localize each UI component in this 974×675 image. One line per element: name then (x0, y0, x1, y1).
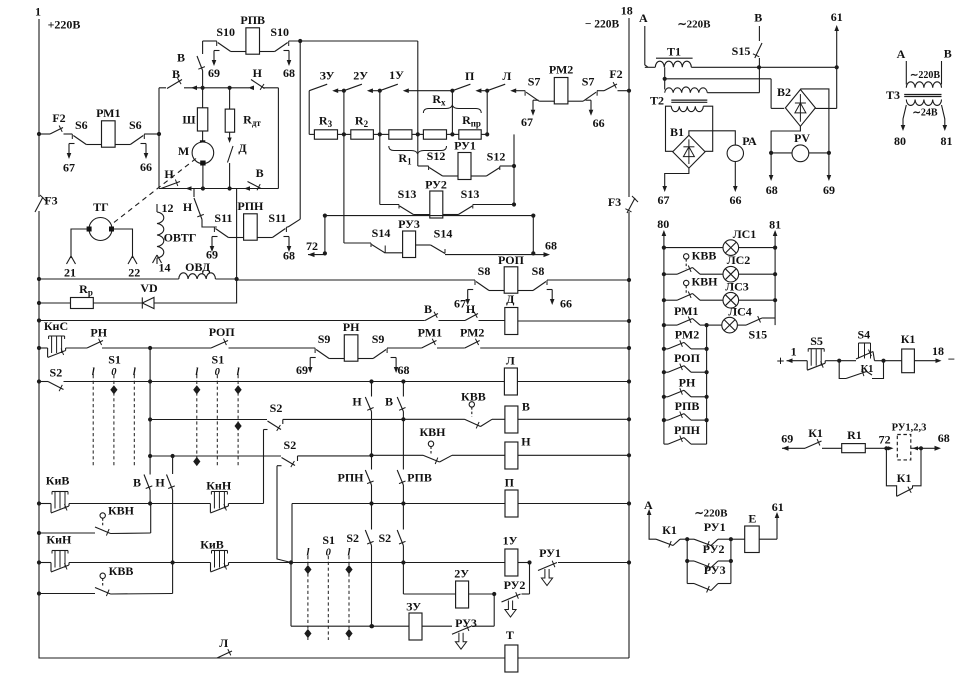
svg-text:Л: Л (502, 69, 511, 83)
svg-text:В: В (256, 166, 264, 180)
svg-text:PV: PV (794, 131, 810, 145)
svg-text:S5: S5 (810, 334, 823, 348)
svg-text:∼220В: ∼220В (910, 70, 940, 81)
svg-text:66: 66 (730, 193, 742, 207)
svg-text:S8: S8 (478, 264, 491, 278)
svg-text:66: 66 (140, 160, 152, 174)
svg-text:18: 18 (621, 3, 633, 17)
svg-text:РМ2: РМ2 (675, 328, 699, 342)
svg-text:КиВ: КиВ (46, 473, 70, 487)
svg-text:РУ1,2,3: РУ1,2,3 (892, 422, 927, 433)
svg-text:S4: S4 (857, 327, 870, 341)
svg-text:РУ1: РУ1 (704, 520, 726, 534)
svg-text:Л: Л (506, 353, 515, 367)
svg-text:67: 67 (658, 193, 670, 207)
svg-text:К1: К1 (901, 332, 916, 346)
svg-text:РН: РН (679, 376, 696, 390)
svg-text:Н: Н (183, 200, 193, 214)
svg-text:S15: S15 (748, 327, 767, 341)
svg-text:12: 12 (162, 201, 174, 215)
svg-text:КВВ: КВВ (692, 248, 717, 262)
svg-text:В2: В2 (777, 85, 791, 99)
svg-text:72: 72 (879, 432, 891, 446)
svg-text:ОВТГ: ОВТГ (164, 231, 197, 245)
svg-text:66: 66 (593, 116, 605, 130)
svg-text:КнС: КнС (44, 319, 68, 333)
svg-text:Л: Л (219, 636, 228, 650)
svg-text:S2: S2 (346, 531, 359, 545)
svg-text:РМ1: РМ1 (674, 304, 698, 318)
svg-text:+220В: +220В (48, 17, 81, 31)
svg-text:−: − (948, 352, 955, 367)
svg-text:В: В (177, 50, 185, 64)
svg-text:РПВ: РПВ (407, 470, 432, 484)
svg-text:РПН: РПН (338, 470, 365, 484)
svg-text:В: В (522, 399, 530, 413)
svg-text:Т2: Т2 (650, 93, 664, 107)
svg-text:Н: Н (521, 434, 531, 448)
svg-text:l: l (237, 367, 240, 378)
svg-text:66: 66 (560, 296, 572, 310)
svg-text:R1: R1 (847, 428, 862, 442)
svg-text:S9: S9 (372, 332, 385, 346)
svg-text:ОВД: ОВД (185, 260, 211, 274)
svg-text:Т3: Т3 (886, 88, 900, 102)
svg-text:ЗУ: ЗУ (406, 599, 421, 613)
svg-text:69: 69 (823, 183, 835, 197)
svg-text:69: 69 (208, 66, 220, 80)
svg-text:S13: S13 (461, 187, 480, 201)
svg-text:∼220В: ∼220В (694, 508, 728, 520)
svg-text:S2: S2 (50, 365, 63, 379)
svg-text:РА: РА (742, 134, 757, 148)
svg-text:РПВ: РПВ (675, 399, 700, 413)
svg-text:РУ2: РУ2 (504, 578, 526, 592)
svg-text:2У: 2У (454, 566, 469, 580)
svg-text:Ш: Ш (182, 113, 195, 127)
svg-text:F3: F3 (608, 195, 621, 209)
svg-text:69: 69 (781, 431, 793, 445)
svg-text:F3: F3 (44, 193, 57, 207)
svg-text:+: + (777, 355, 785, 370)
svg-text:68: 68 (545, 238, 557, 252)
svg-text:0: 0 (215, 367, 221, 378)
svg-text:72: 72 (306, 239, 318, 253)
svg-text:КиН: КиН (46, 532, 72, 546)
svg-text:S1: S1 (108, 352, 121, 366)
svg-text:КнН: КнН (206, 478, 232, 492)
svg-text:К1: К1 (897, 471, 912, 485)
svg-text:К1: К1 (808, 426, 823, 440)
svg-text:80: 80 (657, 217, 669, 231)
svg-text:l: l (306, 547, 309, 558)
svg-text:ЛС2: ЛС2 (727, 253, 751, 267)
svg-text:22: 22 (128, 265, 140, 279)
svg-text:80: 80 (894, 134, 906, 148)
svg-text:l: l (133, 367, 136, 378)
svg-text:69: 69 (296, 363, 308, 377)
svg-text:S10: S10 (216, 25, 235, 39)
svg-text:S2: S2 (270, 401, 283, 415)
svg-text:В: В (385, 394, 393, 408)
svg-text:S13: S13 (398, 187, 417, 201)
svg-text:К1: К1 (662, 523, 677, 537)
svg-text:РУ3: РУ3 (704, 563, 726, 577)
svg-text:∼24В: ∼24В (912, 108, 937, 119)
svg-text:В: В (172, 67, 180, 81)
svg-text:КВВ: КВВ (109, 564, 134, 578)
svg-text:ЛС1: ЛС1 (733, 227, 757, 241)
svg-text:67: 67 (521, 115, 533, 129)
svg-text:А: А (897, 47, 906, 61)
svg-text:68: 68 (766, 183, 778, 197)
svg-text:В: В (944, 46, 952, 60)
svg-text:l: l (195, 367, 198, 378)
svg-text:Н: Н (253, 66, 263, 80)
svg-text:Д: Д (238, 141, 247, 155)
svg-text:l: l (92, 367, 95, 378)
svg-text:К1: К1 (861, 364, 874, 375)
svg-text:1У: 1У (389, 68, 404, 82)
svg-text:Т: Т (506, 628, 514, 642)
svg-text:Т1: Т1 (667, 44, 681, 58)
svg-text:S9: S9 (318, 332, 331, 346)
svg-text:В: В (424, 302, 432, 316)
svg-text:68: 68 (283, 248, 295, 262)
svg-text:S7: S7 (528, 75, 541, 89)
svg-text:ЗУ: ЗУ (320, 69, 335, 83)
svg-text:РОП: РОП (674, 351, 701, 365)
svg-text:S2: S2 (378, 531, 391, 545)
svg-text:РУ2: РУ2 (425, 177, 447, 191)
svg-text:61: 61 (772, 500, 784, 514)
svg-text:S12: S12 (487, 149, 506, 163)
svg-text:VD: VD (140, 281, 158, 295)
svg-text:А: А (644, 498, 653, 512)
svg-text:ЛС3: ЛС3 (725, 279, 749, 293)
svg-text:F2: F2 (609, 67, 622, 81)
svg-text:РПВ: РПВ (240, 13, 265, 27)
svg-text:S10: S10 (270, 25, 289, 39)
svg-text:ЛС4: ЛС4 (728, 304, 752, 318)
svg-text:0: 0 (326, 547, 332, 558)
svg-text:S14: S14 (372, 226, 391, 240)
svg-text:КиВ: КиВ (200, 537, 224, 551)
svg-text:РУ3: РУ3 (398, 217, 420, 231)
svg-text:68: 68 (283, 66, 295, 80)
svg-text:67: 67 (454, 296, 466, 310)
svg-text:В: В (754, 10, 762, 24)
svg-text:2У: 2У (353, 69, 368, 83)
svg-text:РМ1: РМ1 (96, 106, 120, 120)
svg-text:81: 81 (769, 217, 781, 231)
svg-text:Е: Е (748, 511, 756, 525)
svg-text:Н: Н (164, 167, 174, 181)
svg-text:РУ2: РУ2 (703, 542, 725, 556)
svg-text:1: 1 (35, 4, 41, 18)
svg-text:П: П (465, 69, 475, 83)
svg-text:68: 68 (398, 363, 410, 377)
svg-text:18: 18 (932, 344, 944, 358)
svg-text:Н: Н (155, 475, 165, 489)
svg-text:ТГ: ТГ (93, 200, 109, 214)
svg-text:В1: В1 (670, 125, 684, 139)
svg-text:S6: S6 (75, 118, 88, 132)
svg-text:0: 0 (111, 367, 117, 378)
svg-text:КВВ: КВВ (461, 389, 486, 403)
svg-text:РУ1: РУ1 (454, 138, 476, 152)
svg-text:S1: S1 (322, 533, 335, 547)
svg-text:S14: S14 (434, 226, 453, 240)
svg-text:РМ1: РМ1 (418, 325, 442, 339)
svg-text:РН: РН (90, 325, 107, 339)
svg-text:П: П (505, 475, 515, 489)
svg-text:РМ2: РМ2 (549, 63, 573, 77)
svg-text:21: 21 (64, 265, 76, 279)
svg-text:РМ2: РМ2 (460, 325, 484, 339)
svg-text:l: l (348, 547, 351, 558)
svg-text:F2: F2 (52, 111, 65, 125)
svg-text:1У: 1У (503, 533, 518, 547)
svg-text:Д: Д (506, 292, 515, 306)
svg-text:КВН: КВН (108, 503, 135, 517)
svg-text:РПН: РПН (674, 423, 701, 437)
svg-text:S2: S2 (284, 438, 297, 452)
svg-text:61: 61 (831, 10, 843, 24)
svg-text:Н: Н (466, 302, 476, 316)
svg-text:КВН: КВН (419, 425, 446, 439)
svg-text:− 220В: − 220В (585, 19, 620, 31)
svg-text:67: 67 (63, 160, 75, 174)
svg-text:S12: S12 (427, 149, 446, 163)
svg-text:КВН: КВН (691, 274, 718, 288)
svg-text:S8: S8 (532, 264, 545, 278)
svg-text:М: М (178, 144, 189, 158)
svg-text:А: А (639, 11, 648, 25)
svg-text:S1: S1 (212, 352, 225, 366)
svg-text:РОП: РОП (498, 253, 525, 267)
svg-text:∼220В: ∼220В (677, 19, 711, 31)
svg-text:S15: S15 (732, 44, 751, 58)
svg-text:РПН: РПН (237, 199, 264, 213)
svg-text:В: В (133, 475, 141, 489)
svg-text:1: 1 (791, 344, 797, 358)
svg-text:S11: S11 (214, 211, 232, 225)
svg-text:РН: РН (343, 320, 360, 334)
svg-text:РУ1: РУ1 (539, 546, 561, 560)
svg-text:Н: Н (352, 394, 362, 408)
svg-text:S7: S7 (582, 75, 595, 89)
svg-text:S11: S11 (268, 211, 286, 225)
svg-text:РОП: РОП (209, 325, 236, 339)
svg-text:81: 81 (941, 134, 953, 148)
svg-text:РУ3: РУ3 (455, 616, 477, 630)
svg-text:14: 14 (159, 261, 171, 275)
svg-text:68: 68 (938, 431, 950, 445)
svg-text:S6: S6 (129, 118, 142, 132)
